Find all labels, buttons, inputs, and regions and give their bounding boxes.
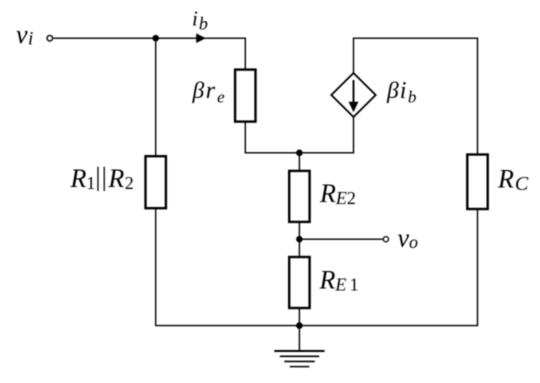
svg-text:R1||R2: R1||R2 [70, 162, 134, 193]
